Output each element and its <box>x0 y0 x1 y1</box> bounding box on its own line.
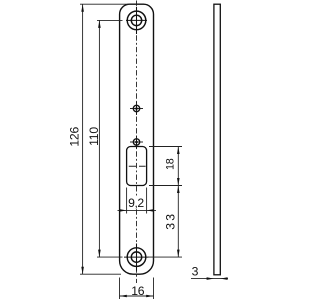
svg-text:16: 16 <box>131 284 145 298</box>
svg-text:3: 3 <box>192 265 199 279</box>
svg-text:110: 110 <box>87 127 101 146</box>
svg-text:126: 126 <box>67 127 81 147</box>
svg-text:18: 18 <box>164 158 176 170</box>
svg-text:33: 33 <box>164 212 178 230</box>
svg-text:9,2: 9,2 <box>128 196 144 210</box>
